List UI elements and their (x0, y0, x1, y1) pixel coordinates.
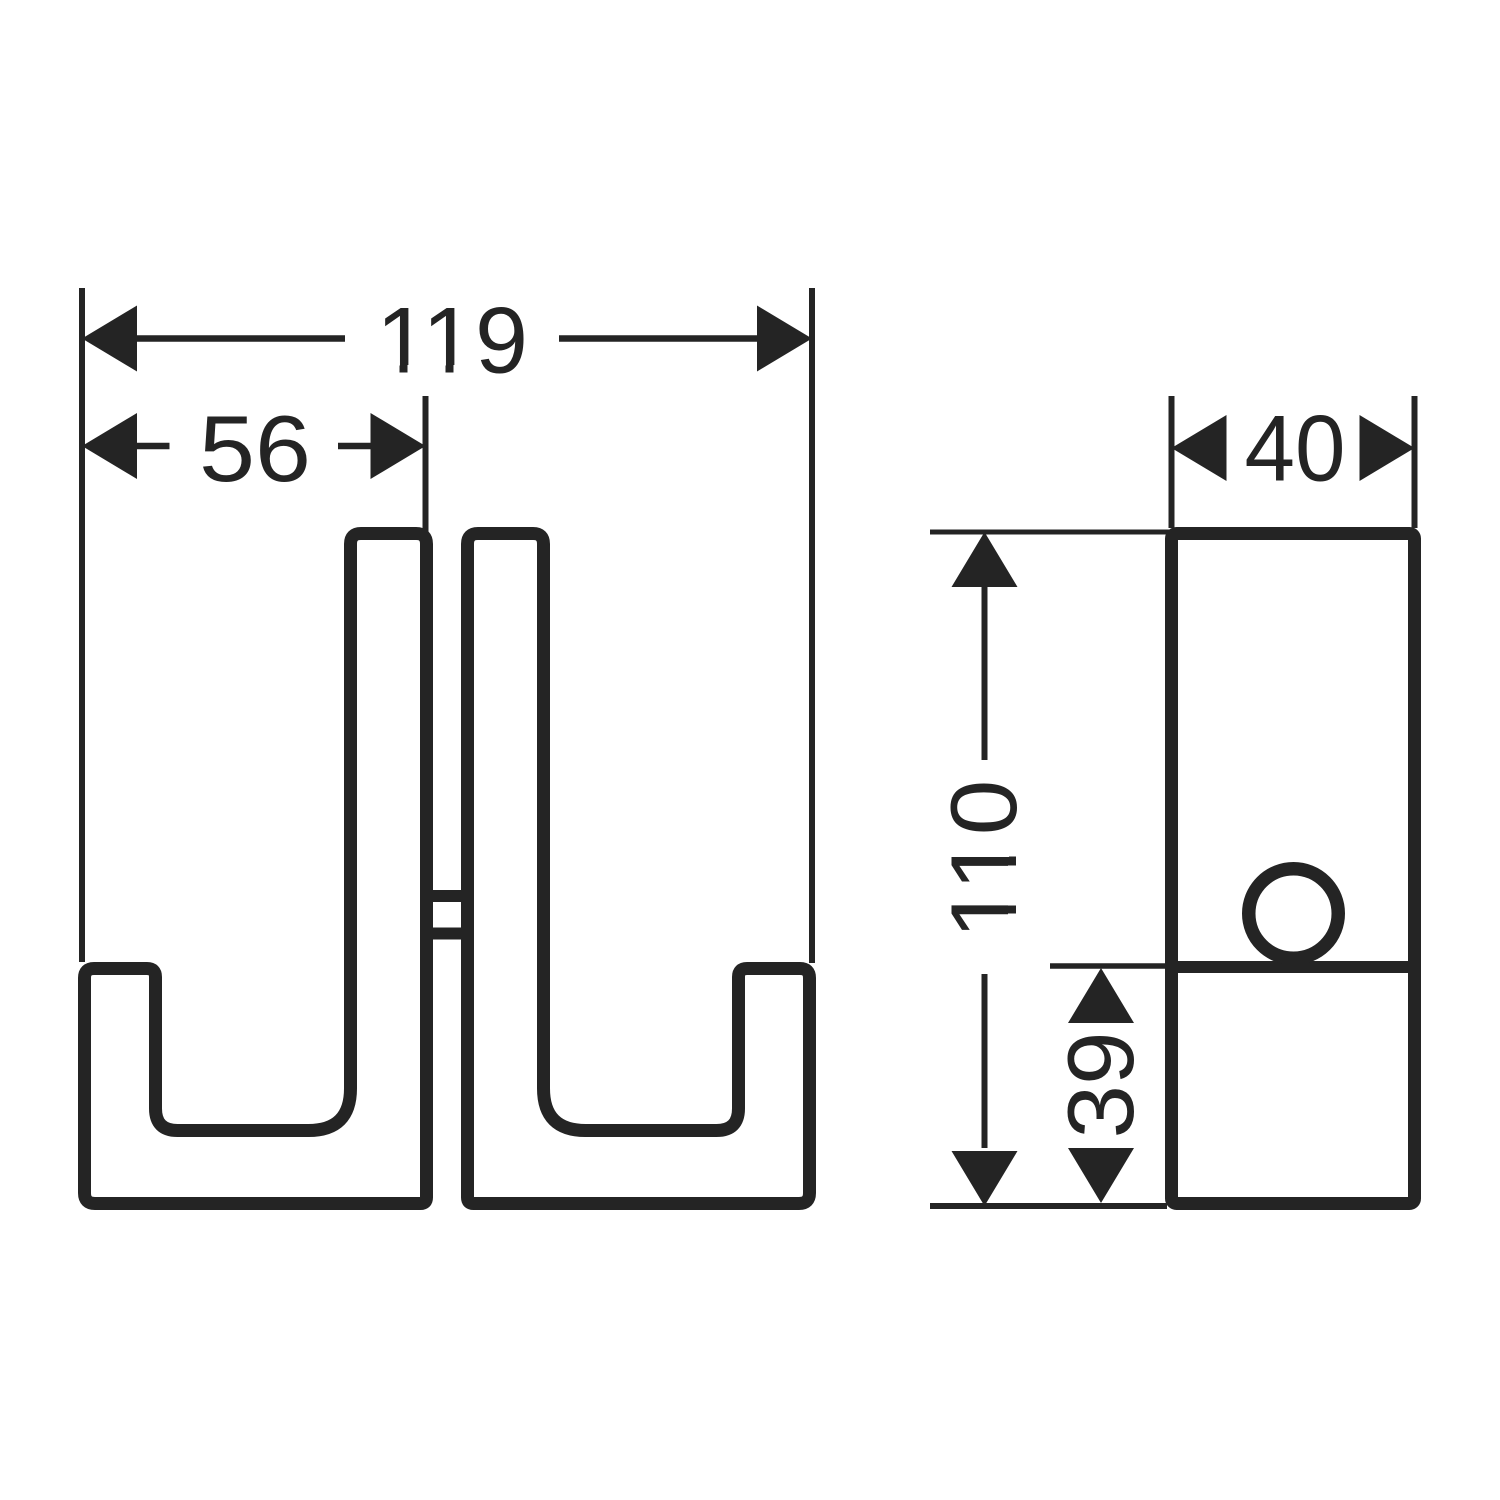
dimension line 110 lower segment (982, 974, 988, 1148)
dimension line 110 upper segment (982, 586, 988, 760)
dimension line 119 left segment (135, 335, 345, 342)
extension line 40 right (1412, 396, 1418, 528)
bridge lower bar between hooks (420, 928, 474, 940)
arrow 56 left (82, 413, 137, 479)
extension line center (56) (423, 396, 429, 534)
svg-text:110: 110 (931, 780, 1036, 940)
side view step divider line (1165, 961, 1421, 973)
extension line left (119/56) (79, 288, 85, 962)
hook right piece outline (468, 534, 810, 1204)
extension line 110/39 bottom (930, 1203, 1167, 1209)
svg-text:39: 39 (1048, 1032, 1153, 1139)
extension line 40 left (1169, 396, 1175, 528)
arrow 40 left (1172, 415, 1227, 481)
arrow 39 up (1068, 968, 1134, 1023)
extension line 39 top (1050, 963, 1167, 969)
arrow 40 right (1360, 415, 1415, 481)
arrow 110 up (952, 532, 1018, 587)
serif-foot masks for 110 (1008, 838, 1020, 857)
extension line 110 top (930, 530, 1169, 535)
svg-text:40: 40 (1245, 396, 1346, 501)
dimension line 119 right segment (559, 335, 759, 342)
bridge upper bar between hooks (420, 890, 474, 902)
dimension line 56 left segment (135, 443, 170, 450)
arrow 119 right (757, 306, 812, 372)
arrow 39 down (1068, 1148, 1134, 1203)
side view body rectangle (1172, 534, 1415, 1204)
extension line right (119) (809, 288, 815, 963)
hook left piece outline (85, 534, 427, 1204)
side view mounting hole circle (1249, 869, 1339, 959)
arrow 110 down (952, 1151, 1018, 1206)
svg-text:56: 56 (199, 396, 311, 501)
dimension line 56 right segment (338, 443, 372, 450)
serif-foot masks for 119 (381, 365, 400, 377)
arrow 119 left (82, 306, 137, 372)
arrow 56 right (371, 413, 426, 479)
